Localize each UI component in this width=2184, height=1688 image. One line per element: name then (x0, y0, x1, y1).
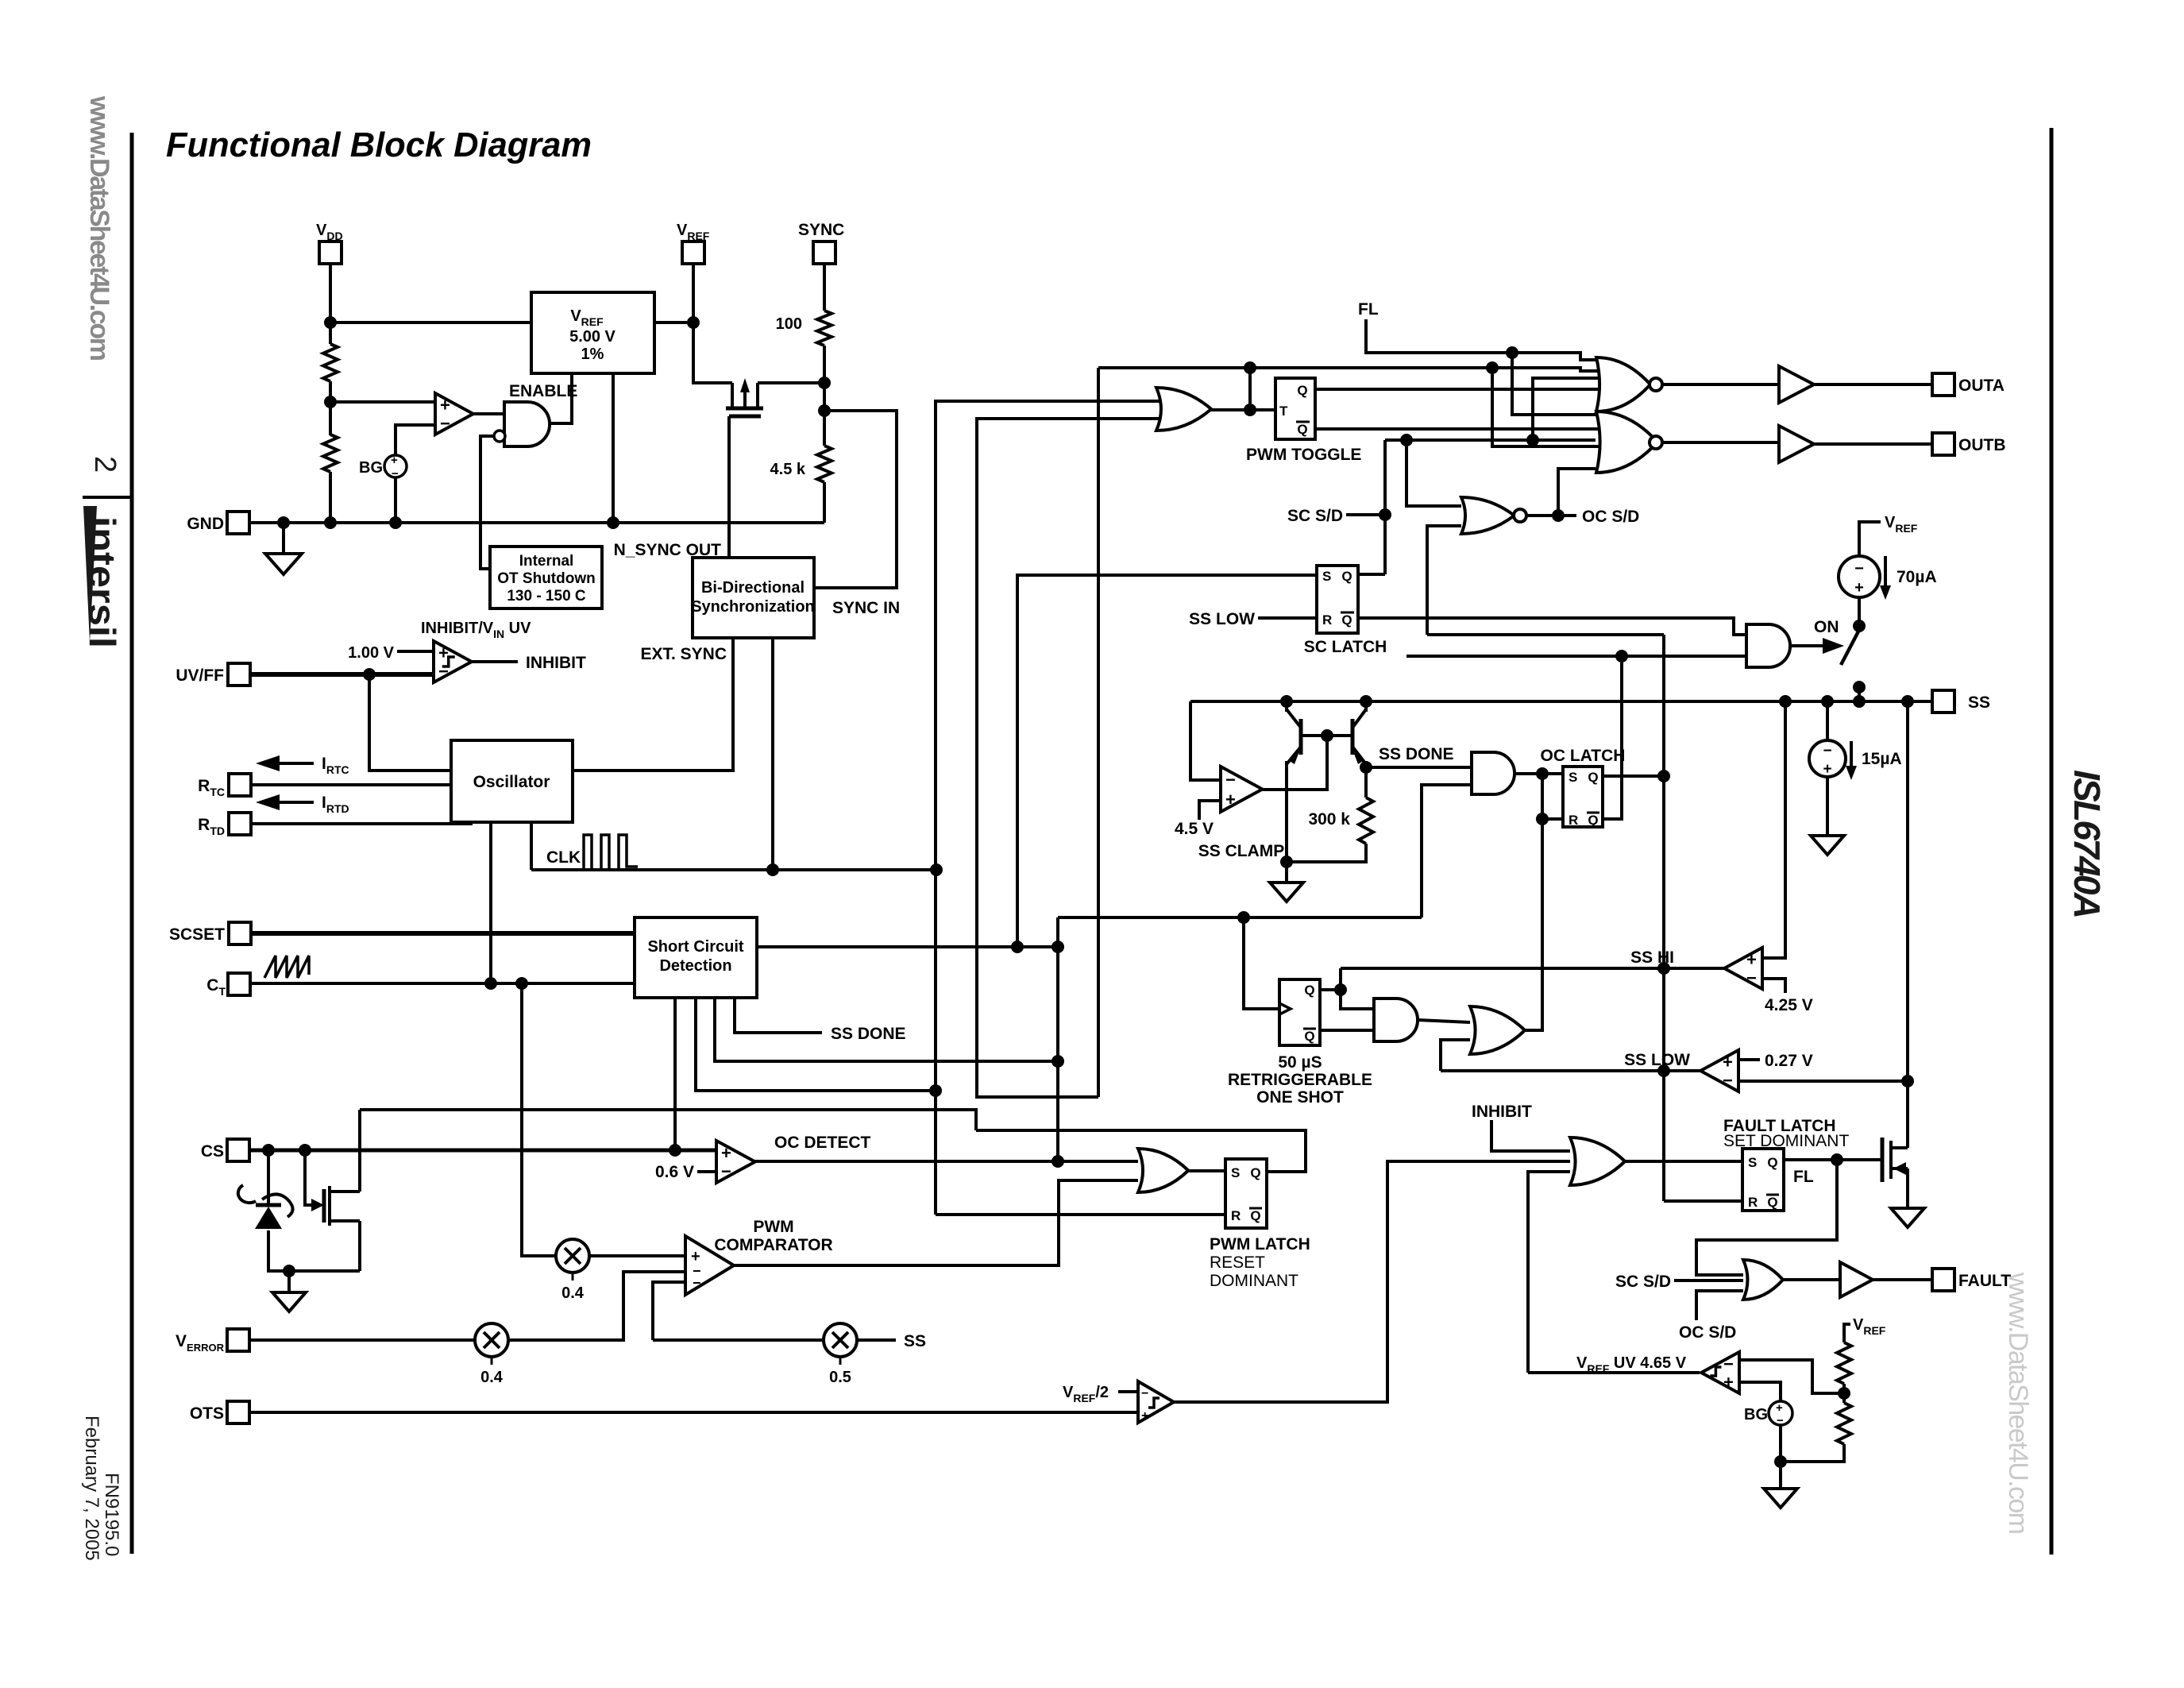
gate OC S/D NOR (1461, 497, 1526, 534)
current source 15uA (1809, 740, 1902, 780)
wire buffer to FAULT pin (1873, 1278, 1932, 1281)
wire clamp right emitter (1364, 761, 1368, 798)
wire OC S/D to NOR2 (1558, 469, 1596, 515)
wire verror mult to comparator (508, 1272, 685, 1340)
svg-text:February 7, 2005: February 7, 2005 (81, 1416, 102, 1561)
right border rule (2050, 128, 2054, 1555)
svg-text:SS DONE: SS DONE (1379, 745, 1454, 763)
page number 2 (88, 456, 122, 473)
node CT-osc junction (484, 977, 497, 990)
wire vrefuv riser (1528, 1172, 1570, 1373)
block PWM TOGGLE flip-flop (1275, 378, 1315, 439)
wire toggle Q to NOR1 (1315, 388, 1614, 391)
label SS DONE (1379, 745, 1454, 763)
wire zener drop (267, 1150, 270, 1204)
node ocdet-bus junction (1051, 1155, 1064, 1168)
wire one-shot Qbar to AND (1320, 1029, 1374, 1032)
block VREF regulator (531, 292, 654, 373)
svg-text:Q: Q (1250, 1165, 1260, 1180)
multiplier 0.4 CT (556, 1239, 589, 1302)
pin CS (201, 1139, 249, 1161)
node SYNC-IN tap (818, 404, 831, 417)
wire 0.6V stub (697, 1170, 716, 1173)
label VREF divider (1853, 1316, 1886, 1337)
label OC S/D fault (1679, 1323, 1736, 1342)
wire one-shot trigger header (1058, 916, 1422, 919)
ground symbol BG2 (1764, 1489, 1797, 1508)
wire 15uA drop (1826, 701, 1829, 741)
pin RTC (198, 774, 251, 798)
label SS LOW left (1189, 610, 1255, 628)
wire INHIBIT drop (1491, 1120, 1570, 1151)
wire PWM latch Q feedback (976, 1130, 1306, 1172)
label SC S/D (1287, 507, 1343, 525)
label DOMINANT (1210, 1272, 1298, 1290)
wire SC S/D stub (1346, 513, 1385, 516)
pin SS (1932, 690, 1990, 713)
node CS-zener junction (262, 1144, 275, 1157)
wire OC detect output (755, 1160, 1138, 1163)
label RETRIGGERABLE (1228, 1071, 1372, 1089)
wire SS mult feed (653, 1338, 824, 1342)
wire UV plus to BG (1739, 1382, 1781, 1402)
wire RTC line (251, 783, 451, 786)
label N_SYNC OUT (614, 541, 722, 559)
comparator UV sense (435, 393, 473, 435)
svg-text:Functional Block Diagram: Functional Block Diagram (166, 126, 592, 164)
doc number FN9195.0 (101, 1473, 122, 1556)
svg-text:ON: ON (1814, 618, 1839, 636)
comparator INHIBIT (434, 641, 472, 682)
svg-text:SS CLAMP: SS CLAMP (1198, 842, 1285, 860)
svg-text:+: + (1225, 790, 1236, 809)
wire PWMOR output (1188, 1169, 1225, 1172)
block one shot (1279, 979, 1320, 1045)
svg-text:Q: Q (1341, 569, 1352, 584)
wire BG to comparator minus (396, 425, 435, 455)
wire SCD output to one-shot net (757, 945, 1058, 948)
wire NOR1 in4 crossover (1533, 378, 1614, 440)
svg-text:SYNC: SYNC (798, 221, 844, 239)
svg-text:+: + (438, 643, 449, 663)
wire CS line (249, 1149, 716, 1153)
svg-text:Q: Q (1341, 612, 1352, 628)
wire CLK net (531, 868, 936, 871)
node NOR2 in4 junction (0, 0, 1, 1)
node CS-gate junction (299, 1144, 311, 1157)
svg-text:0.6 V: 0.6 V (655, 1163, 694, 1181)
node SS-sshi (1779, 695, 1792, 708)
transistor pass MOSFET (726, 378, 763, 416)
glyph CT sawtooth (264, 956, 309, 978)
node ONAND-in2 junction (1615, 650, 1628, 662)
svg-text:+: + (391, 454, 398, 467)
comparator PWM (685, 1236, 734, 1295)
label SYNC IN (832, 599, 900, 617)
label OC LATCH (1541, 747, 1626, 765)
wire clamp minus riser (1190, 701, 1221, 780)
svg-text:ENABLE: ENABLE (509, 382, 577, 400)
label PWM TOGGLE (1246, 446, 1361, 464)
wire bus D (one-shot trigger net) (1056, 917, 1059, 1161)
intersil logo (82, 506, 123, 648)
node CLK-bus junction (930, 863, 943, 876)
label FAULT LATCH (1723, 1117, 1836, 1135)
svg-text:−: − (1854, 560, 1864, 577)
wire fault latch R (1664, 1199, 1742, 1203)
opamp SS CLAMP (1221, 767, 1262, 812)
wire OC NOR in2 to bus (1427, 633, 1664, 636)
buffer FAULT driver (1840, 1262, 1873, 1297)
page number tick (83, 496, 132, 499)
node oneshotQ junction (1334, 983, 1347, 996)
svg-text:RESET: RESET (1210, 1253, 1265, 1272)
wire faultOR to buffer (1783, 1278, 1840, 1281)
svg-text:+: + (1723, 1372, 1734, 1392)
svg-text:−: − (721, 1161, 731, 1181)
svg-text:OC S/D: OC S/D (1582, 508, 1639, 526)
node VDD-VREF junction (324, 316, 337, 329)
svg-text:R: R (1569, 813, 1578, 828)
wire 4.5V to plus (1199, 801, 1221, 820)
node UVFF tap (363, 668, 376, 681)
svg-text:Short Circuit: Short Circuit (647, 938, 743, 956)
svg-text:Q: Q (1297, 422, 1307, 437)
wire SS to FL mosfet (1906, 701, 1909, 1148)
svg-text:SS HI: SS HI (1630, 948, 1674, 967)
wire UVFF to oscillator (369, 674, 451, 771)
svg-text:4.5 V: 4.5 V (1175, 820, 1214, 838)
wire GND rail (249, 521, 824, 524)
block OC LATCH (1563, 767, 1603, 828)
node SS-clampL (1280, 695, 1293, 708)
label SS LOW (1624, 1051, 1690, 1069)
node SCD-bus1332 junction (1051, 941, 1064, 953)
svg-text:0.27 V: 0.27 V (1765, 1052, 1813, 1070)
node OClatchQ-bus junction (1657, 770, 1670, 782)
svg-text:R: R (1322, 612, 1332, 628)
label SS mult (904, 1332, 926, 1350)
wire SSLOW minus (1738, 1080, 1908, 1083)
wire VREF block to pass device (654, 323, 732, 383)
node SSHI-bus junction (1657, 962, 1670, 975)
node switch top (1853, 620, 1866, 632)
gate FAULT OR (1743, 1260, 1783, 1300)
svg-text:+: + (721, 1143, 731, 1163)
wire SYNC node segment (823, 383, 826, 446)
pin FAULT (1932, 1269, 2011, 1291)
ground symbol 15uA (1811, 836, 1844, 855)
wire OTS line (249, 1411, 1139, 1414)
svg-text:Q: Q (1767, 1195, 1777, 1210)
svg-text:CLK: CLK (546, 848, 581, 867)
svg-text:−: − (440, 413, 450, 433)
wire zener to foot (268, 1230, 360, 1271)
node CT-mult junction (515, 977, 528, 990)
buffer OUTB driver (1779, 426, 1814, 462)
pin GND (187, 512, 249, 534)
svg-text:−: − (693, 1275, 701, 1291)
wire OTS comp output (1174, 1161, 1570, 1402)
wire 1.00V to comparator plus (397, 650, 434, 653)
wire bus E (ramp to NOR) (360, 368, 1098, 1130)
svg-text:+: + (440, 396, 450, 415)
wire VREF div top (1844, 1324, 1850, 1342)
wire faultOR to latch S (1625, 1160, 1742, 1163)
svg-text:OC S/D: OC S/D (1679, 1323, 1736, 1342)
node OC S/D junction (1552, 509, 1565, 522)
node SCD-bus1281 junction (1011, 941, 1024, 953)
wire VDD to VREF block (330, 321, 531, 324)
svg-text:RETRIGGERABLE: RETRIGGERABLE (1228, 1071, 1372, 1089)
comparator SS HI (1724, 948, 1762, 989)
arrow IRTC (256, 755, 349, 776)
svg-text:0.4: 0.4 (561, 1284, 585, 1302)
wire OCSD output (1526, 514, 1576, 517)
svg-text:SS: SS (904, 1332, 926, 1350)
block Short Circuit Detection (635, 917, 757, 998)
label SS DONE scd (831, 1025, 906, 1043)
wire one-shot Q stub (1320, 988, 1341, 991)
node divider tap (324, 396, 337, 408)
svg-text:50 µS: 50 µS (1278, 1053, 1322, 1072)
node ramp junction (1486, 361, 1499, 374)
node switch bottom (1853, 681, 1866, 693)
wire SYNC pin to resistor (823, 264, 826, 311)
gate ENABLE NAND (494, 402, 550, 446)
ground symbol CS (272, 1292, 306, 1311)
wire OC latch Qbar to ONAND (1603, 656, 1622, 819)
transistor clamp right (1352, 709, 1366, 764)
wire SS LOW line (1441, 1069, 1701, 1072)
svg-text:INHIBIT: INHIBIT (1472, 1103, 1532, 1121)
pin CT (206, 973, 250, 998)
svg-text:CS: CS (201, 1142, 224, 1161)
svg-text:+: + (1854, 579, 1864, 597)
resistor 100 (776, 311, 832, 346)
svg-text:SS DONE: SS DONE (831, 1025, 906, 1043)
node SS-switch (1853, 695, 1866, 708)
svg-text:PWM TOGGLE: PWM TOGGLE (1246, 446, 1361, 464)
node SCD-B junction (1051, 1055, 1064, 1068)
wire SS LOW to OR (1441, 1040, 1470, 1071)
svg-text:Bi-Directional: Bi-Directional (701, 579, 805, 597)
transistor clamp left (1287, 709, 1301, 764)
node GND-2 (324, 516, 337, 529)
wire CT to oscillator (489, 822, 492, 983)
svg-text:GND: GND (187, 515, 224, 533)
wire SSLOW plus (1738, 1058, 1760, 1061)
wire SS HI line (1341, 967, 1727, 970)
wire ramp line to NOR1 (1098, 368, 1614, 371)
svg-text:EXT. SYNC: EXT. SYNC (640, 645, 727, 663)
node VREF return (607, 516, 619, 529)
wire SCD pin SS DONE (735, 998, 822, 1033)
svg-text:S: S (1322, 569, 1331, 584)
node SS-15u (1821, 695, 1834, 708)
wire UVFF line (250, 672, 434, 677)
node GND-3 (389, 516, 402, 529)
node base junction (1321, 729, 1333, 742)
wire SCD pin C (696, 998, 936, 1091)
svg-text:UV/FF: UV/FF (176, 666, 224, 685)
wire NOR B to buffer (1662, 441, 1779, 444)
comparator SS LOW (1700, 1050, 1738, 1091)
svg-text:+: + (1723, 1053, 1733, 1072)
wire fault latch Q (1784, 1158, 1882, 1161)
label OC S/D (1582, 508, 1639, 526)
wire FL crossover down (1512, 353, 1614, 415)
buffer OUTA driver (1779, 366, 1814, 403)
wire SCSD to ocnor jog (1385, 440, 1596, 506)
block Oscillator (451, 740, 573, 822)
svg-text:S: S (1569, 770, 1577, 785)
label VREF 70u (1885, 514, 1918, 535)
wire FL FET source (1906, 1168, 1909, 1208)
label 50uS (1278, 1053, 1322, 1072)
gate NOR A (1596, 357, 1662, 411)
gate NOR B (1596, 411, 1662, 473)
node CLK-sync junction (766, 863, 779, 876)
block Bi-Directional Synchronization (691, 558, 815, 638)
resistor UV upper (1837, 1342, 1851, 1384)
wire RTD line (251, 822, 471, 824)
wire SS HI to AND (1341, 968, 1374, 1009)
pin SCSET (169, 922, 251, 944)
label OC DETECT (774, 1134, 871, 1152)
wire buffer to OUTA (1814, 383, 1932, 386)
wire switch to SS rail (1858, 687, 1861, 701)
pin SYNC (798, 221, 844, 264)
svg-text:300 k: 300 k (1308, 810, 1350, 829)
part number ISL6740A (2066, 770, 2108, 919)
wire pass MOSFET drain to SYNC node (758, 381, 824, 384)
label EXT. SYNC (640, 645, 727, 663)
wire ON arrow (1790, 638, 1844, 654)
wire BG2 bottom (1779, 1425, 1782, 1489)
wire bus B (toggle feedback) (977, 419, 1169, 1097)
wire CT to multiplier (522, 983, 557, 1256)
wire bus C (SC latch set) (1017, 575, 1317, 947)
svg-text:15µA: 15µA (1862, 750, 1902, 768)
comparator VREF UV (1701, 1352, 1739, 1393)
svg-text:+: + (1823, 761, 1831, 778)
svg-text:www.DataSheet4U.com: www.DataSheet4U.com (2003, 1272, 2033, 1535)
wire clamp foot to ground (1285, 862, 1288, 883)
wire SCSD fault line (1674, 1279, 1743, 1282)
node SS DONE tap (1360, 761, 1372, 774)
wire 15uA to ground (1826, 777, 1829, 836)
svg-text:Detection: Detection (659, 957, 731, 975)
wire clamp left collector (1285, 701, 1288, 712)
node CS foot (283, 1265, 295, 1277)
wire NAND inverted input from OT shutdown (480, 436, 494, 569)
svg-text:0.4: 0.4 (480, 1369, 504, 1386)
wire 300k bottom (1287, 844, 1366, 862)
node SCD-CS junction (669, 1144, 681, 1157)
pin OTS (190, 1401, 249, 1423)
label CLK (546, 848, 581, 867)
svg-text:PWM: PWM (753, 1218, 793, 1236)
ground symbol FL (1891, 1208, 1924, 1227)
wire SS DONE (1366, 766, 1472, 769)
pin OUTB (1932, 433, 2006, 455)
wire OC NOR in2 (1427, 526, 1461, 635)
wire CS FET source (358, 1221, 361, 1271)
node VREF output (687, 316, 700, 329)
current source 70uA (1839, 556, 1937, 600)
svg-text:OT Shutdown: OT Shutdown (497, 570, 595, 587)
label 0.27V (1765, 1052, 1813, 1070)
transistor FL discharge FET (1882, 1138, 1908, 1182)
wire SS mult out (857, 1338, 896, 1342)
svg-text:OUTA: OUTA (1958, 377, 2005, 395)
wire SCSET line (251, 931, 635, 936)
node SS-sslow (1901, 695, 1914, 708)
svg-text:SS LOW: SS LOW (1189, 610, 1255, 628)
wire SC latch Qbar to AND (1358, 618, 1746, 635)
node UV tap (1838, 1387, 1850, 1400)
label SS CLAMP (1198, 842, 1285, 860)
wire 4.5k to GND rail (823, 482, 826, 523)
svg-text:4.5 k: 4.5 k (770, 461, 806, 478)
svg-text:4.25 V: 4.25 V (1765, 996, 1813, 1014)
wire or2 output riser (1525, 774, 1542, 1030)
multiplier 0.4 VERROR (475, 1323, 508, 1386)
wire OCSD fault (1696, 1291, 1743, 1320)
gate PWM latch OR (1138, 1149, 1188, 1192)
wire SS rail (1190, 700, 1932, 703)
gate SS DONE AND (1472, 752, 1515, 794)
wire buffer to OUTB (1814, 442, 1932, 446)
date February 7 2005 (81, 1416, 102, 1561)
wire PWM comp output (734, 1180, 1138, 1265)
label INHIBIT/VIN UV (421, 620, 531, 640)
svg-text:R: R (1748, 1195, 1758, 1210)
wire VREF block return to GND (612, 373, 615, 523)
svg-text:DOMINANT: DOMINANT (1210, 1272, 1298, 1290)
node OClatch R junction (1536, 813, 1549, 825)
svg-text:0.5: 0.5 (829, 1369, 851, 1386)
gate one-shot AND (1374, 999, 1418, 1041)
left border rule (130, 133, 134, 1554)
wire SC latch R input (1258, 616, 1317, 620)
ground symbol main (265, 554, 302, 574)
bottom-right watermark www.DataSheet4U.com (2003, 1272, 2033, 1535)
wire 100 to node (823, 346, 826, 383)
label INHIBIT out (526, 654, 586, 672)
node S-drive junction (1536, 767, 1549, 780)
node trigger-oneshot junction (1237, 911, 1250, 924)
multiplier 0.5 SS (824, 1323, 857, 1386)
label ON (1814, 618, 1839, 636)
label SC LATCH (1304, 638, 1387, 656)
svg-text:+: + (1746, 950, 1757, 970)
node SC S/D junction (1379, 508, 1391, 521)
wire toggle Qbar to NOR2 (1315, 427, 1614, 431)
transistor CS clamp FET (324, 1186, 360, 1226)
wire T tap vertical (1248, 368, 1252, 410)
node T-input junction (1244, 361, 1256, 416)
label SET DOMINANT (1723, 1132, 1849, 1150)
wire SSHI minus (1762, 979, 1785, 993)
resistor 4.5k (770, 446, 832, 482)
wire mult1 to comparator (589, 1254, 685, 1257)
label VREF UV 4.65V (1576, 1354, 1687, 1375)
svg-text:SS: SS (1968, 693, 1990, 712)
comparator OC DETECT (716, 1141, 755, 1183)
wire VERROR line (249, 1338, 475, 1342)
